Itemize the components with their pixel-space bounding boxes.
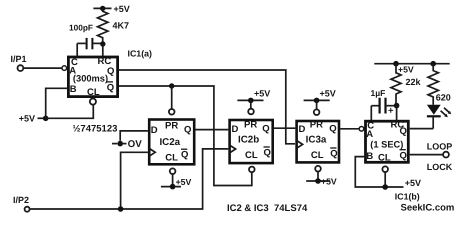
watermark SeekIC.com: [401, 203, 455, 214]
pin CL label IC2b: [245, 150, 258, 161]
svg-text:Q: Q: [184, 125, 191, 136]
pin RC label IC1(b): [391, 120, 405, 131]
pin Q label IC2a: [184, 125, 191, 136]
wire Qbar IC1(b) to output: [410, 154, 443, 156]
node I/P1 terminal: [18, 65, 24, 71]
wire C pin up to capacitor: [76, 43, 78, 56]
pin CL bubble IC2a: [170, 168, 176, 174]
resistor R2 22k: [391, 64, 422, 106]
node junction CL +5V: [382, 184, 388, 190]
capacitor C1 100pF: [69, 23, 101, 50]
svg-text:IC1(a): IC1(a): [128, 49, 153, 59]
node I/P2 terminal: [25, 207, 30, 212]
svg-text:D: D: [232, 124, 239, 135]
pin Qbar label IC2a: [181, 149, 188, 161]
wire D IC2a to 0V: [120, 131, 148, 141]
power +5V below IC3a: [306, 172, 337, 187]
svg-text:620: 620: [436, 93, 451, 103]
svg-text:PR: PR: [165, 121, 178, 132]
svg-text:B: B: [70, 84, 77, 95]
svg-text:IC2b: IC2b: [238, 135, 259, 146]
svg-text:CL: CL: [378, 153, 391, 164]
LED D1: [427, 105, 441, 129]
label IC2b: [238, 135, 259, 146]
pin CL label IC1(b): [378, 153, 391, 164]
svg-text:+5V: +5V: [398, 64, 414, 74]
wire clock IC2a to I/P2: [121, 152, 148, 209]
monostable IC1(a) box: [68, 57, 117, 97]
label IC3a: [306, 135, 327, 146]
wire Q IC2b to D IC3a: [274, 127, 295, 129]
svg-text:IC2a: IC2a: [159, 137, 180, 148]
svg-text:(300ms): (300ms): [73, 74, 108, 84]
op-amp U0 inversion bubble A input IC1(a): [62, 66, 67, 71]
value label (300ms): [73, 74, 108, 84]
svg-text:OV: OV: [128, 139, 143, 150]
node RC junction IC1(b): [394, 103, 400, 109]
svg-text:IC3a: IC3a: [306, 135, 327, 146]
svg-text:CL: CL: [245, 150, 258, 161]
flip-flop IC3a box: [297, 121, 339, 162]
svg-text:½7475123: ½7475123: [73, 124, 118, 135]
svg-text:4K7: 4K7: [113, 21, 130, 31]
clock triangle IC3a: [297, 141, 303, 149]
pin B label IC1(b): [366, 151, 373, 162]
wire junction down to PR bubble IC2a: [171, 86, 173, 109]
svg-text:I/P2: I/P2: [13, 195, 29, 205]
wire +5V to CL pin IC1(a): [46, 105, 94, 118]
svg-text:CL: CL: [165, 152, 178, 163]
pin CL label IC3a: [311, 150, 324, 161]
svg-text:Q: Q: [181, 150, 188, 161]
wire junction to RC pin IC1(b): [396, 106, 398, 121]
wire RC junction to RC pin: [102, 44, 104, 56]
svg-text:(1 SEC): (1 SEC): [370, 140, 403, 150]
pin Qbar label IC1(b): [400, 150, 407, 162]
svg-text:D: D: [151, 125, 158, 136]
pin Q label IC2b: [262, 123, 269, 134]
pin PR bubble IC2b: [248, 109, 254, 115]
power +5V label right: [405, 178, 421, 188]
svg-text:I/P1: I/P1: [11, 54, 27, 64]
wire I/P1 to A input: [24, 67, 62, 69]
svg-text:LOOP: LOOP: [427, 141, 453, 151]
pin PR label IC3a: [310, 119, 323, 130]
svg-text:B: B: [366, 151, 373, 162]
svg-text:22k: 22k: [406, 77, 422, 87]
svg-text:1µF: 1µF: [371, 88, 386, 98]
svg-text:LOCK: LOCK: [427, 162, 453, 172]
pin CL bubble IC1(a): [90, 99, 96, 105]
svg-text:+5V: +5V: [320, 89, 336, 99]
label half 7475123: [73, 124, 118, 135]
flip-flop IC2a box: [149, 120, 194, 165]
pin CL label IC2a: [165, 152, 178, 163]
resistor R3 620: [428, 64, 451, 105]
power +5V above IC3a: [304, 89, 336, 110]
svg-text:D: D: [299, 124, 306, 135]
wire B pin IC1(b) to +5V: [355, 157, 403, 187]
svg-text:+5V: +5V: [405, 178, 421, 188]
pin Q label IC1(a): [107, 66, 114, 77]
svg-text:Q: Q: [400, 150, 407, 161]
wire C pin IC1(b) to capacitor: [370, 106, 372, 121]
wire I/P2 line: [30, 149, 228, 209]
svg-text:+5V: +5V: [19, 114, 35, 124]
svg-text:100pF: 100pF: [69, 23, 93, 33]
svg-text:A: A: [366, 129, 373, 140]
svg-text:Q: Q: [264, 148, 271, 159]
wire Q IC2a to D IC2b: [195, 129, 228, 131]
svg-text:+5V: +5V: [321, 177, 337, 187]
resistor R1 4K7: [98, 8, 130, 44]
svg-text:CL: CL: [87, 87, 100, 98]
pin A label IC1(b): [366, 129, 373, 140]
pin Qbar label IC3a: [330, 148, 337, 160]
svg-text:Q: Q: [262, 123, 269, 134]
pin Qbar label IC2b: [264, 147, 271, 159]
pin CL bubble IC2b: [249, 167, 255, 173]
svg-text:+5V: +5V: [114, 4, 130, 14]
wire Qbar IC1(a) to right: [119, 86, 252, 186]
svg-text:Q: Q: [330, 149, 337, 160]
pin B label IC1(a): [70, 84, 77, 95]
svg-text:IC2 & IC3 74LS74: IC2 & IC3 74LS74: [227, 203, 308, 214]
monostable IC1(b) box: [366, 121, 409, 162]
pin CL bubble IC3a: [315, 166, 321, 172]
power +5V left: [19, 114, 49, 124]
pin C label IC1(b): [367, 121, 374, 132]
node 0V: [112, 139, 142, 150]
pin Q label IC3a: [329, 123, 336, 134]
pin PR bubble IC2a: [169, 109, 175, 115]
label LOOP: [427, 141, 453, 151]
wire Q IC1(b) to LED: [410, 128, 434, 130]
label IC2a: [159, 137, 180, 148]
value label (1 SEC): [370, 140, 403, 150]
LED light arrows: [441, 108, 452, 118]
node RC junction dot: [100, 41, 105, 46]
pin D label IC2a: [151, 125, 158, 136]
pin Qbar label IC1(a): [107, 82, 114, 94]
node I/P1 label: [11, 54, 27, 64]
svg-text:PR: PR: [310, 119, 323, 130]
pin D label IC3a: [299, 124, 306, 135]
svg-text:Q: Q: [400, 126, 407, 137]
svg-text:+5V: +5V: [176, 177, 192, 187]
node junction Qbar to PR: [169, 83, 174, 88]
svg-text:+: +: [388, 106, 394, 117]
pin D label IC2b: [232, 124, 239, 135]
svg-text:+5V: +5V: [254, 89, 270, 99]
wire CL IC1(b) down: [384, 172, 386, 187]
pin A label IC1(a): [69, 66, 76, 77]
capacitor C2 1uF: [371, 88, 395, 117]
svg-text:CL: CL: [311, 150, 324, 161]
label IC1(a): [128, 49, 153, 59]
wire +5V to B pin: [46, 88, 67, 118]
svg-text:SeekIC.com: SeekIC.com: [401, 203, 455, 214]
pin RC label IC1(a): [98, 56, 112, 67]
label IC2 IC3 74LS74: [227, 203, 308, 214]
flip-flop IC2b box: [230, 120, 273, 163]
clock triangle IC2b: [230, 145, 236, 153]
clock triangle IC2a: [149, 148, 155, 156]
node I/P2 label: [13, 195, 29, 205]
power +5V below IC2a: [161, 174, 192, 189]
pin C label IC1(a): [71, 57, 78, 68]
node junction I/P2 to IC2a clock: [118, 206, 124, 212]
inversion bubble A input IC1(b): [359, 127, 364, 132]
svg-text:IC1(b): IC1(b): [395, 192, 420, 202]
pin PR label IC2b: [244, 119, 257, 130]
svg-text:Q: Q: [107, 83, 114, 94]
wire Q IC1(a) to IC3a clock: [119, 70, 295, 144]
svg-text:PR: PR: [244, 119, 257, 130]
power +5V above IC2b: [237, 89, 270, 109]
pin CL bubble IC1(b): [382, 166, 388, 172]
svg-text:Q: Q: [329, 123, 336, 134]
pin Q label IC1(b): [400, 126, 407, 137]
power +5V rail top right: [374, 61, 449, 74]
pin CL label IC1(a): [87, 87, 100, 98]
label LOCK: [427, 162, 453, 172]
node output terminal: [443, 152, 449, 158]
power +5V top left: [93, 4, 129, 14]
pin PR label IC2a: [165, 121, 178, 132]
svg-text:Q: Q: [107, 66, 114, 77]
pin PR bubble IC3a: [314, 109, 320, 115]
label IC1(b): [395, 192, 420, 202]
wire Q IC3a to A IC1(b): [340, 128, 359, 130]
